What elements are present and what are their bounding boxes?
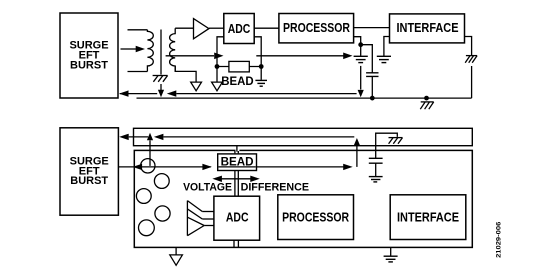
node: rail chassis junction: [424, 96, 429, 101]
wire: amp output to ADC: [209, 27, 224, 29]
transformer T1 secondary winding: [170, 28, 176, 71]
input amplifiers glyph: [187, 201, 214, 236]
svg-text:VOLTAGE: VOLTAGE: [183, 182, 232, 194]
noise arrow (open) below ADC ground node: [212, 82, 223, 91]
transformer T1 primary winding: [147, 30, 153, 72]
chassis ground at rail: [420, 102, 433, 109]
wire: line from bead to far node with arrow: [257, 166, 344, 168]
wire: surge line into system: [118, 166, 210, 168]
capacitor C2: [369, 158, 383, 163]
node: processor ground junction: [358, 42, 363, 47]
noise arrow (open) below secondary low side: [191, 82, 202, 91]
wire: return path line with arrows: [129, 136, 149, 138]
wire: center tap continued with arrow under processor: [256, 55, 343, 57]
transformer T1 shield (core): [160, 30, 162, 75]
ground (earth) below capacitor: [369, 177, 383, 182]
connector circles cluster: [154, 174, 169, 189]
svg-text:21029-006: 21029-006: [496, 221, 503, 257]
wire: secondary center tap with arrow: [166, 55, 214, 57]
svg-text:PROCESSOR: PROCESSOR: [282, 210, 349, 225]
wire: segment through bead: [218, 166, 255, 168]
wire: chassis lead down to rail: [471, 66, 473, 98]
wire: processor ground lead: [354, 37, 361, 56]
wire: interface right lead to chassis: [465, 37, 472, 56]
wire: interface left ground lead: [384, 37, 390, 57]
notch in system box top edge: [236, 149, 240, 151]
interface box (top): [390, 14, 465, 43]
svg-text:BURST: BURST: [70, 175, 108, 187]
differential pair vertical wires: [236, 146, 238, 152]
wire: secondary bottom lead: [175, 66, 196, 82]
ferrite bead FB2: [218, 154, 257, 171]
wire: lower ground rail: [137, 97, 472, 99]
svg-text:PROCESSOR: PROCESSOR: [283, 20, 350, 35]
svg-text:BEAD: BEAD: [221, 76, 253, 88]
noise arrow (open) below system box: [175, 247, 177, 255]
ground (earth) below system box: [390, 247, 392, 256]
svg-text:DIFFERENCE: DIFFERENCE: [241, 182, 310, 194]
chassis ground at interface: [465, 56, 477, 63]
wire: ADC ground pair to plane: [234, 240, 238, 247]
noise current arrow: digital ground to bottom rail: [360, 66, 362, 90]
processor box (bottom): [278, 195, 354, 240]
interface box (bottom): [390, 195, 466, 240]
svg-text:INTERFACE: INTERFACE: [397, 20, 459, 35]
surge generator box (bottom): [60, 128, 118, 215]
ground (earth) digital under processor: [354, 56, 368, 62]
svg-text:BURST: BURST: [70, 60, 108, 72]
node: bead right junction: [259, 64, 264, 69]
chassis ground (shield): [153, 76, 168, 82]
svg-text:ADC: ADC: [226, 210, 249, 225]
voltage difference arrow: [219, 178, 253, 180]
node: bead left junction: [215, 64, 220, 69]
wire: ADC ground lead (right): [254, 37, 261, 80]
wire: primary bottom lead: [128, 71, 148, 73]
ground (earth) under interface: [377, 56, 391, 62]
ferrite bead FB1: [217, 66, 261, 68]
noise current arrow: shield to bottom rail: [160, 84, 162, 91]
connector circle (CT): [141, 159, 155, 173]
ground (earth) at bead right node: [255, 80, 267, 86]
svg-text:ADC: ADC: [228, 21, 251, 36]
noise current arrow up from connector: [149, 140, 151, 166]
wire: ADC analog ground lead (left): [217, 37, 224, 82]
ADC box (bottom): [214, 196, 260, 240]
wire: secondary top lead to amplifier: [175, 27, 193, 29]
wire: primary top lead: [128, 29, 148, 31]
wire: upper return rail with arrows: [120, 93, 157, 95]
node: capacitor to rail: [370, 96, 375, 101]
wire: processor to interface: [354, 27, 390, 29]
chassis ground in plane bar: [389, 138, 403, 144]
ADC box (top): [224, 14, 254, 44]
ground plane bar (top rectangle): [134, 128, 473, 145]
wire: chassis stub in ground plane bar: [376, 133, 398, 158]
big system box: [134, 150, 472, 247]
noise current arrow up to ground plane: [356, 146, 358, 167]
surge generator box (top): [60, 13, 118, 98]
wire: ADC to processor: [254, 27, 279, 29]
svg-text:INTERFACE: INTERFACE: [397, 210, 459, 225]
noise current arrow into transformer primary: [121, 48, 137, 50]
svg-text:BEAD: BEAD: [221, 155, 254, 169]
processor box (top): [279, 14, 354, 43]
capacitor C1 (stray): [361, 45, 373, 73]
op-amp A1: [194, 19, 209, 39]
